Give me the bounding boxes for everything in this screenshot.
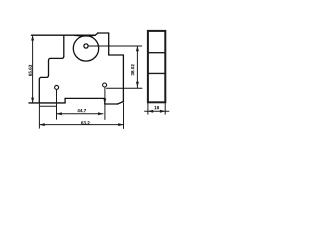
arrow left 18 xyxy=(148,110,153,113)
ext line left hole xyxy=(56,90,58,120)
right vertical lower xyxy=(122,55,124,102)
ext stub front right xyxy=(164,103,166,115)
ext line left outline xyxy=(38,101,40,129)
top edge with dimension extension xyxy=(31,34,95,36)
top right edge xyxy=(98,32,109,34)
left vertical lower xyxy=(39,77,41,103)
bottom step xyxy=(64,98,66,102)
foot bottom line xyxy=(39,105,56,107)
left vertical mid xyxy=(49,58,51,75)
hole circle left xyxy=(55,85,59,89)
arrow left 63.2 xyxy=(39,123,44,126)
arrow right 44.7 xyxy=(98,112,103,115)
din notch bottom xyxy=(105,103,118,105)
ext line right outline xyxy=(123,103,125,129)
arrow up 65.63 xyxy=(31,35,34,40)
label 38.02 xyxy=(131,64,134,75)
dim right vertical line xyxy=(136,46,138,88)
front divider 1 xyxy=(148,52,165,54)
arrow down 65.63 xyxy=(31,98,34,103)
lever line xyxy=(88,45,142,47)
ext stub front left xyxy=(147,103,149,115)
left step2 horizontal xyxy=(41,75,48,77)
hole circle right xyxy=(103,83,107,87)
din notch slant xyxy=(118,102,124,105)
arrow down right-dim xyxy=(136,82,139,87)
right shoulder slant xyxy=(95,33,98,35)
terminal line xyxy=(107,87,142,89)
dim 18 line xyxy=(144,110,169,112)
label 65.63 xyxy=(29,65,32,76)
din notch left vertical xyxy=(104,98,106,104)
bottom edge right xyxy=(65,97,105,99)
dim 65.63 line xyxy=(32,35,34,103)
dim 63.2 line xyxy=(39,124,123,126)
arrow left 44.7 xyxy=(57,112,62,115)
arrow down notch xyxy=(103,99,106,104)
knob pivot dot xyxy=(84,44,88,48)
arrow right 18 xyxy=(160,110,165,113)
dim 44.7 line xyxy=(57,113,104,115)
left vertical upper xyxy=(63,35,65,56)
right step xyxy=(109,54,124,56)
left step1 horizontal xyxy=(51,56,64,58)
bottom edge left with dim extension xyxy=(29,102,65,104)
front divider 2 xyxy=(148,72,165,74)
label 63.2 xyxy=(81,121,90,124)
knob circle xyxy=(73,36,98,61)
right vertical upper xyxy=(108,33,110,55)
arrow up right-dim xyxy=(136,46,139,51)
ext line right hole xyxy=(104,87,106,120)
arrow right 63.2 xyxy=(118,123,123,126)
label 44.7 xyxy=(77,109,86,112)
knob housing top arc xyxy=(75,34,96,37)
label 18 xyxy=(154,106,159,109)
front view body xyxy=(148,31,165,102)
